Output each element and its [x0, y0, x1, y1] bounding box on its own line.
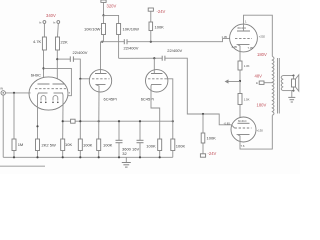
svg-text:6H9C: 6H9C: [31, 72, 41, 77]
wire input ground return: [2, 95, 4, 157]
svg-text:10K/10W: 10K/10W: [84, 27, 101, 32]
svg-text:340V: 340V: [46, 13, 56, 18]
border artifact line bottom left: [0, 165, 45, 167]
wire V2 grid leak drop: [79, 79, 81, 139]
svg-text:100K: 100K: [155, 25, 165, 30]
wire 4.7K to plate of V1a: [42, 50, 44, 84]
wire input to V1a grid: [5, 92, 30, 94]
wire V3 cathode jog to R: [151, 92, 160, 139]
node 320V terminal: [101, 0, 106, 15]
tube V3 6C45Pi: [141, 70, 168, 102]
svg-text:22/400V: 22/400V: [124, 46, 139, 51]
resistor 1.3K: [238, 61, 250, 94]
svg-text:100K: 100K: [103, 143, 113, 148]
svg-text:6C45Pi: 6C45Pi: [141, 96, 154, 101]
transformer T1 core: [278, 58, 280, 114]
svg-text:6C41C: 6C41C: [238, 119, 247, 123]
resistor 10K/10W (left): [84, 24, 106, 42]
resistor 10K/10W (right): [117, 24, 140, 59]
node -24V terminal bottom: [200, 143, 205, 157]
capacitor C3 22/400V to V4 grid: [162, 48, 182, 61]
svg-text:6C41C: 6C41C: [238, 26, 247, 30]
node B+ 340V terminals: [39, 20, 60, 24]
ground at speaker: [288, 91, 295, 102]
wire V4 grid entry step: [231, 125, 234, 128]
svg-text:180V: 180V: [257, 52, 267, 57]
svg-text:-24V: -24V: [208, 151, 217, 156]
node input jack: [0, 87, 5, 96]
resistor 100K bias V5: [149, 22, 164, 42]
tube V5 6C41C top: [230, 20, 258, 53]
wire ground rail: [3, 156, 173, 158]
wire C3 to V4 grid: [165, 58, 232, 125]
svg-text:IN: IN: [0, 87, 3, 91]
svg-text:22K: 22K: [61, 40, 68, 45]
svg-text:100K: 100K: [176, 143, 186, 148]
svg-text:1.05: 1.05: [222, 35, 228, 39]
wire feedback arrow: [225, 79, 240, 83]
svg-text:7.05: 7.05: [248, 46, 254, 50]
transformer T1 secondary: [281, 76, 283, 91]
wire V4 cathode to transformer bottom: [240, 115, 272, 149]
svg-text:6C45Pi: 6C45Pi: [104, 96, 117, 101]
capacitor 3600/16V (right): [137, 120, 144, 157]
svg-text:22/400V: 22/400V: [167, 48, 182, 53]
wire cathode bus rail: [62, 120, 174, 122]
svg-text:48V: 48V: [255, 74, 263, 79]
wire secondary to speaker: [283, 75, 295, 92]
svg-text:2K2 5W: 2K2 5W: [42, 143, 56, 148]
svg-text:100K: 100K: [207, 135, 217, 140]
resistor 100K bias V4: [201, 114, 216, 143]
node -24V terminal top: [148, 8, 153, 22]
ground symbol: [122, 157, 131, 167]
wire V5 cathode chain: [239, 52, 241, 61]
svg-text:-0.85: -0.85: [224, 121, 231, 125]
wire V5 plate to transformer: [244, 15, 273, 56]
resistor 100K grid leak V2: [78, 139, 92, 157]
svg-text:-24V: -24V: [157, 9, 166, 14]
speaker: [292, 75, 299, 91]
transformer T1 primary: [272, 56, 274, 115]
svg-text:1.5K: 1.5K: [244, 98, 250, 102]
svg-text:32: 32: [122, 151, 127, 156]
capacitor 3600/16V (left): [116, 120, 123, 157]
wire C2 to V5 grid with bias join: [127, 39, 230, 43]
wire V3 grid to grid leak: [166, 79, 173, 139]
label 3600 16V x2: [122, 147, 139, 156]
resistor 22K: [56, 37, 68, 50]
svg-text:100K: 100K: [83, 142, 93, 147]
resistor 4.7K: [33, 37, 46, 50]
component small box on rail: [71, 119, 76, 123]
svg-text:4.05: 4.05: [232, 45, 238, 49]
capacitor C1 22/400V coupling: [57, 50, 87, 62]
svg-text:10K: 10K: [65, 142, 72, 147]
svg-text:+130: +130: [257, 129, 264, 133]
svg-text:180V: 180V: [257, 102, 267, 107]
svg-text:7.6: 7.6: [241, 144, 245, 148]
resistor 2K2 5W cathode V1a: [36, 105, 56, 158]
tube V1 6H9C: [29, 72, 71, 110]
svg-text:1.3K: 1.3K: [244, 64, 250, 68]
capacitor C2 22/400V to V5 grid: [124, 39, 139, 51]
resistor R5 1M grid leak V1a: [12, 93, 23, 157]
svg-text:10K/10W: 10K/10W: [123, 27, 140, 32]
svg-text:320V: 320V: [107, 3, 117, 8]
wire V3 plate line from lower 10K/10W: [119, 57, 162, 70]
resistor 100K grid leak V3: [171, 139, 186, 157]
tube V2 6C45Pi: [89, 70, 116, 102]
wire V2 plate node: [101, 41, 125, 70]
wire direct coupling V1a plate to V1b grid: [44, 68, 72, 95]
wire 22K to plate of V1b: [56, 50, 58, 84]
svg-text:22/400V: 22/400V: [73, 50, 88, 55]
resistor 100K cathode V3: [146, 139, 161, 157]
tube V4 6C41C bottom: [231, 117, 256, 148]
svg-text:+202: +202: [259, 34, 266, 38]
svg-text:4.7K: 4.7K: [33, 39, 42, 44]
resistor 100K cathode V2: [97, 139, 113, 157]
svg-text:100K: 100K: [146, 143, 156, 148]
wire V2 cathode to R: [98, 92, 100, 139]
wire 320V rail: [102, 14, 118, 23]
resistor 1.5K: [238, 94, 250, 118]
resistor 10K cathode V1b: [61, 105, 73, 158]
wire 340V feeds: [44, 24, 58, 37]
svg-text:1M: 1M: [18, 142, 24, 147]
node transformer tap terminal: [256, 81, 273, 85]
wire C1 to V2 grid: [73, 59, 89, 80]
